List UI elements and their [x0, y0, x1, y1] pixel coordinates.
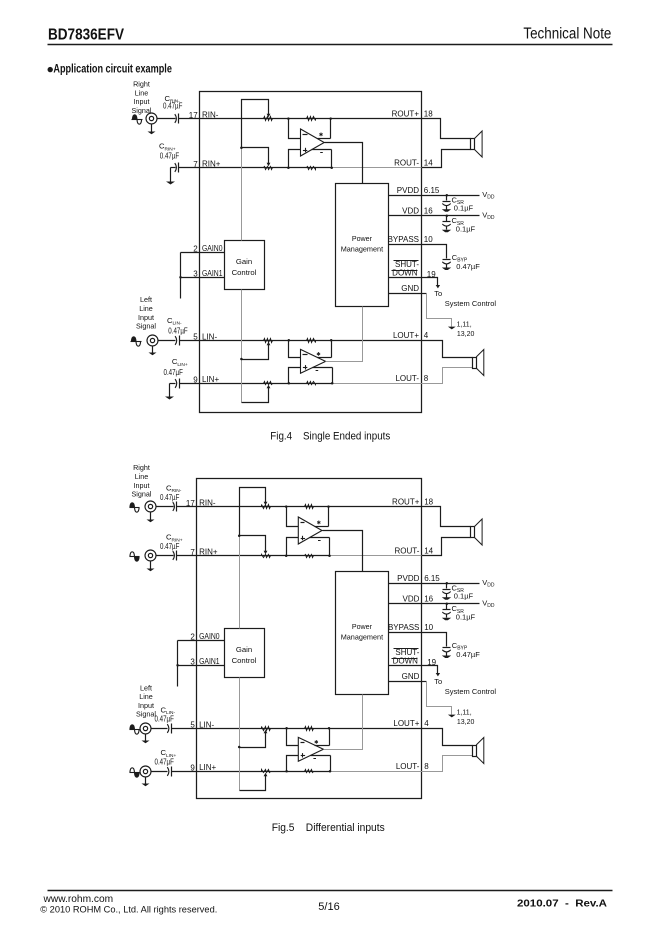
- svg-text:8: 8: [424, 374, 429, 383]
- svg-text:2010.07 - Rev.A: 2010.07 - Rev.A: [517, 898, 607, 910]
- svg-text:14: 14: [424, 159, 433, 168]
- svg-text:0.47µF: 0.47µF: [163, 102, 183, 111]
- svg-text:RIN+: RIN+: [202, 160, 221, 169]
- svg-text:1,11,: 1,11,: [457, 322, 472, 329]
- svg-text:LIN-: LIN-: [202, 332, 217, 341]
- svg-text:19: 19: [427, 658, 436, 667]
- svg-text:GAIN1: GAIN1: [202, 269, 223, 278]
- svg-text:Power: Power: [352, 234, 372, 243]
- svg-text:0.47µF: 0.47µF: [160, 542, 180, 551]
- svg-text:13,20: 13,20: [457, 331, 475, 338]
- svg-text:PVDD: PVDD: [397, 186, 419, 195]
- svg-text:0.47µF: 0.47µF: [456, 262, 480, 271]
- svg-text:ROUT+: ROUT+: [392, 109, 420, 118]
- svg-text:Signal: Signal: [136, 710, 156, 719]
- svg-text:Line: Line: [139, 692, 153, 701]
- svg-text:VDD: VDD: [402, 207, 419, 216]
- svg-text:GAIN0: GAIN0: [199, 632, 220, 641]
- svg-text:18: 18: [424, 497, 433, 506]
- svg-text:0.1µF: 0.1µF: [454, 204, 474, 213]
- svg-text:0.47µF: 0.47µF: [155, 715, 175, 724]
- svg-text:0.47µF: 0.47µF: [168, 327, 188, 336]
- svg-text:Right: Right: [133, 463, 150, 472]
- svg-text:13,20: 13,20: [457, 719, 475, 726]
- svg-text:0.47µF: 0.47µF: [160, 493, 180, 502]
- svg-text:Input: Input: [134, 97, 150, 106]
- svg-text:RIN+: RIN+: [199, 548, 218, 557]
- svg-text:3: 3: [190, 657, 195, 666]
- svg-text:Right: Right: [133, 80, 150, 89]
- svg-text:Line: Line: [139, 304, 153, 313]
- svg-text:GND: GND: [401, 284, 419, 293]
- svg-text:Input: Input: [134, 481, 150, 490]
- svg-text:Line: Line: [135, 88, 149, 97]
- svg-text:Power: Power: [352, 622, 372, 631]
- svg-text:Line: Line: [135, 472, 149, 481]
- svg-text:Input: Input: [138, 313, 154, 322]
- svg-text:Signal: Signal: [132, 490, 152, 499]
- svg-text:1,11,: 1,11,: [457, 710, 472, 717]
- svg-text:DOWN: DOWN: [393, 657, 419, 666]
- svg-text:Left: Left: [140, 295, 152, 304]
- svg-text:GAIN1: GAIN1: [199, 657, 220, 666]
- svg-text:0.47µF: 0.47µF: [164, 368, 184, 377]
- svg-text:To: To: [434, 289, 442, 298]
- svg-text:Gain: Gain: [236, 257, 252, 266]
- svg-text:ROUT-: ROUT-: [394, 159, 419, 168]
- svg-text:LIN+: LIN+: [199, 763, 216, 772]
- svg-text:LOUT-: LOUT-: [395, 374, 419, 383]
- svg-text:LOUT+: LOUT+: [393, 719, 419, 728]
- svg-text:6.15: 6.15: [424, 574, 440, 583]
- svg-text:BYPASS: BYPASS: [388, 623, 419, 632]
- svg-text:Fig.4 Single Ended inputs: Fig.4 Single Ended inputs: [270, 430, 390, 442]
- svg-text:RIN-: RIN-: [202, 111, 219, 120]
- svg-text:6.15: 6.15: [424, 186, 440, 195]
- svg-text:18: 18: [424, 109, 433, 118]
- svg-text:LIN-: LIN-: [199, 720, 214, 729]
- svg-text:16: 16: [424, 595, 433, 604]
- svg-text:ROUT+: ROUT+: [392, 497, 420, 506]
- svg-text:System Control: System Control: [445, 687, 497, 696]
- svg-text:4: 4: [424, 331, 429, 340]
- svg-text:3: 3: [193, 269, 198, 278]
- svg-text:2: 2: [193, 244, 198, 253]
- svg-text:5/16: 5/16: [318, 901, 339, 913]
- svg-text:GND: GND: [402, 672, 420, 681]
- svg-text:BYPASS: BYPASS: [388, 235, 419, 244]
- svg-text:LIN+: LIN+: [202, 375, 219, 384]
- svg-text:ROUT-: ROUT-: [395, 547, 420, 556]
- svg-text:14: 14: [424, 547, 433, 556]
- svg-text:Fig.5 Differential inputs: Fig.5 Differential inputs: [272, 822, 385, 834]
- svg-text:LOUT+: LOUT+: [393, 331, 419, 340]
- svg-text:To: To: [434, 677, 442, 686]
- svg-text:16: 16: [424, 207, 433, 216]
- svg-text:0.1µF: 0.1µF: [456, 613, 476, 622]
- svg-text:Control: Control: [232, 268, 257, 277]
- svg-text:10: 10: [424, 235, 433, 244]
- svg-text:PVDD: PVDD: [397, 574, 419, 583]
- svg-text:Left: Left: [140, 683, 152, 692]
- svg-text:LOUT-: LOUT-: [396, 762, 420, 771]
- svg-text:Management: Management: [341, 244, 384, 253]
- svg-text:Application circuit example: Application circuit example: [53, 62, 172, 76]
- svg-text:8: 8: [424, 762, 429, 771]
- svg-text:0.47µF: 0.47µF: [160, 152, 180, 161]
- svg-text:DOWN: DOWN: [392, 269, 418, 278]
- svg-text:4: 4: [424, 719, 429, 728]
- svg-text:System Control: System Control: [445, 299, 497, 308]
- svg-text:Signal: Signal: [136, 322, 156, 331]
- svg-text:Input: Input: [138, 701, 154, 710]
- svg-text:Technical Note: Technical Note: [523, 25, 611, 42]
- svg-text:© 2010 ROHM Co., Ltd. All righ: © 2010 ROHM Co., Ltd. All rights reserve…: [40, 904, 217, 914]
- svg-text:Gain: Gain: [236, 645, 252, 654]
- svg-text:Control: Control: [232, 656, 257, 665]
- svg-text:0.47µF: 0.47µF: [155, 757, 175, 766]
- svg-text:10: 10: [424, 623, 433, 632]
- svg-text:19: 19: [427, 270, 436, 279]
- svg-text:0.1µF: 0.1µF: [456, 225, 476, 234]
- svg-text:0.47µF: 0.47µF: [456, 650, 480, 659]
- svg-text:BD7836EFV: BD7836EFV: [48, 27, 124, 44]
- svg-text:GAIN0: GAIN0: [202, 244, 223, 253]
- svg-text:2: 2: [190, 632, 195, 641]
- svg-text:RIN-: RIN-: [199, 499, 216, 508]
- svg-text:0.1µF: 0.1µF: [454, 592, 474, 601]
- svg-text:Management: Management: [341, 632, 384, 641]
- svg-text:VDD: VDD: [403, 595, 420, 604]
